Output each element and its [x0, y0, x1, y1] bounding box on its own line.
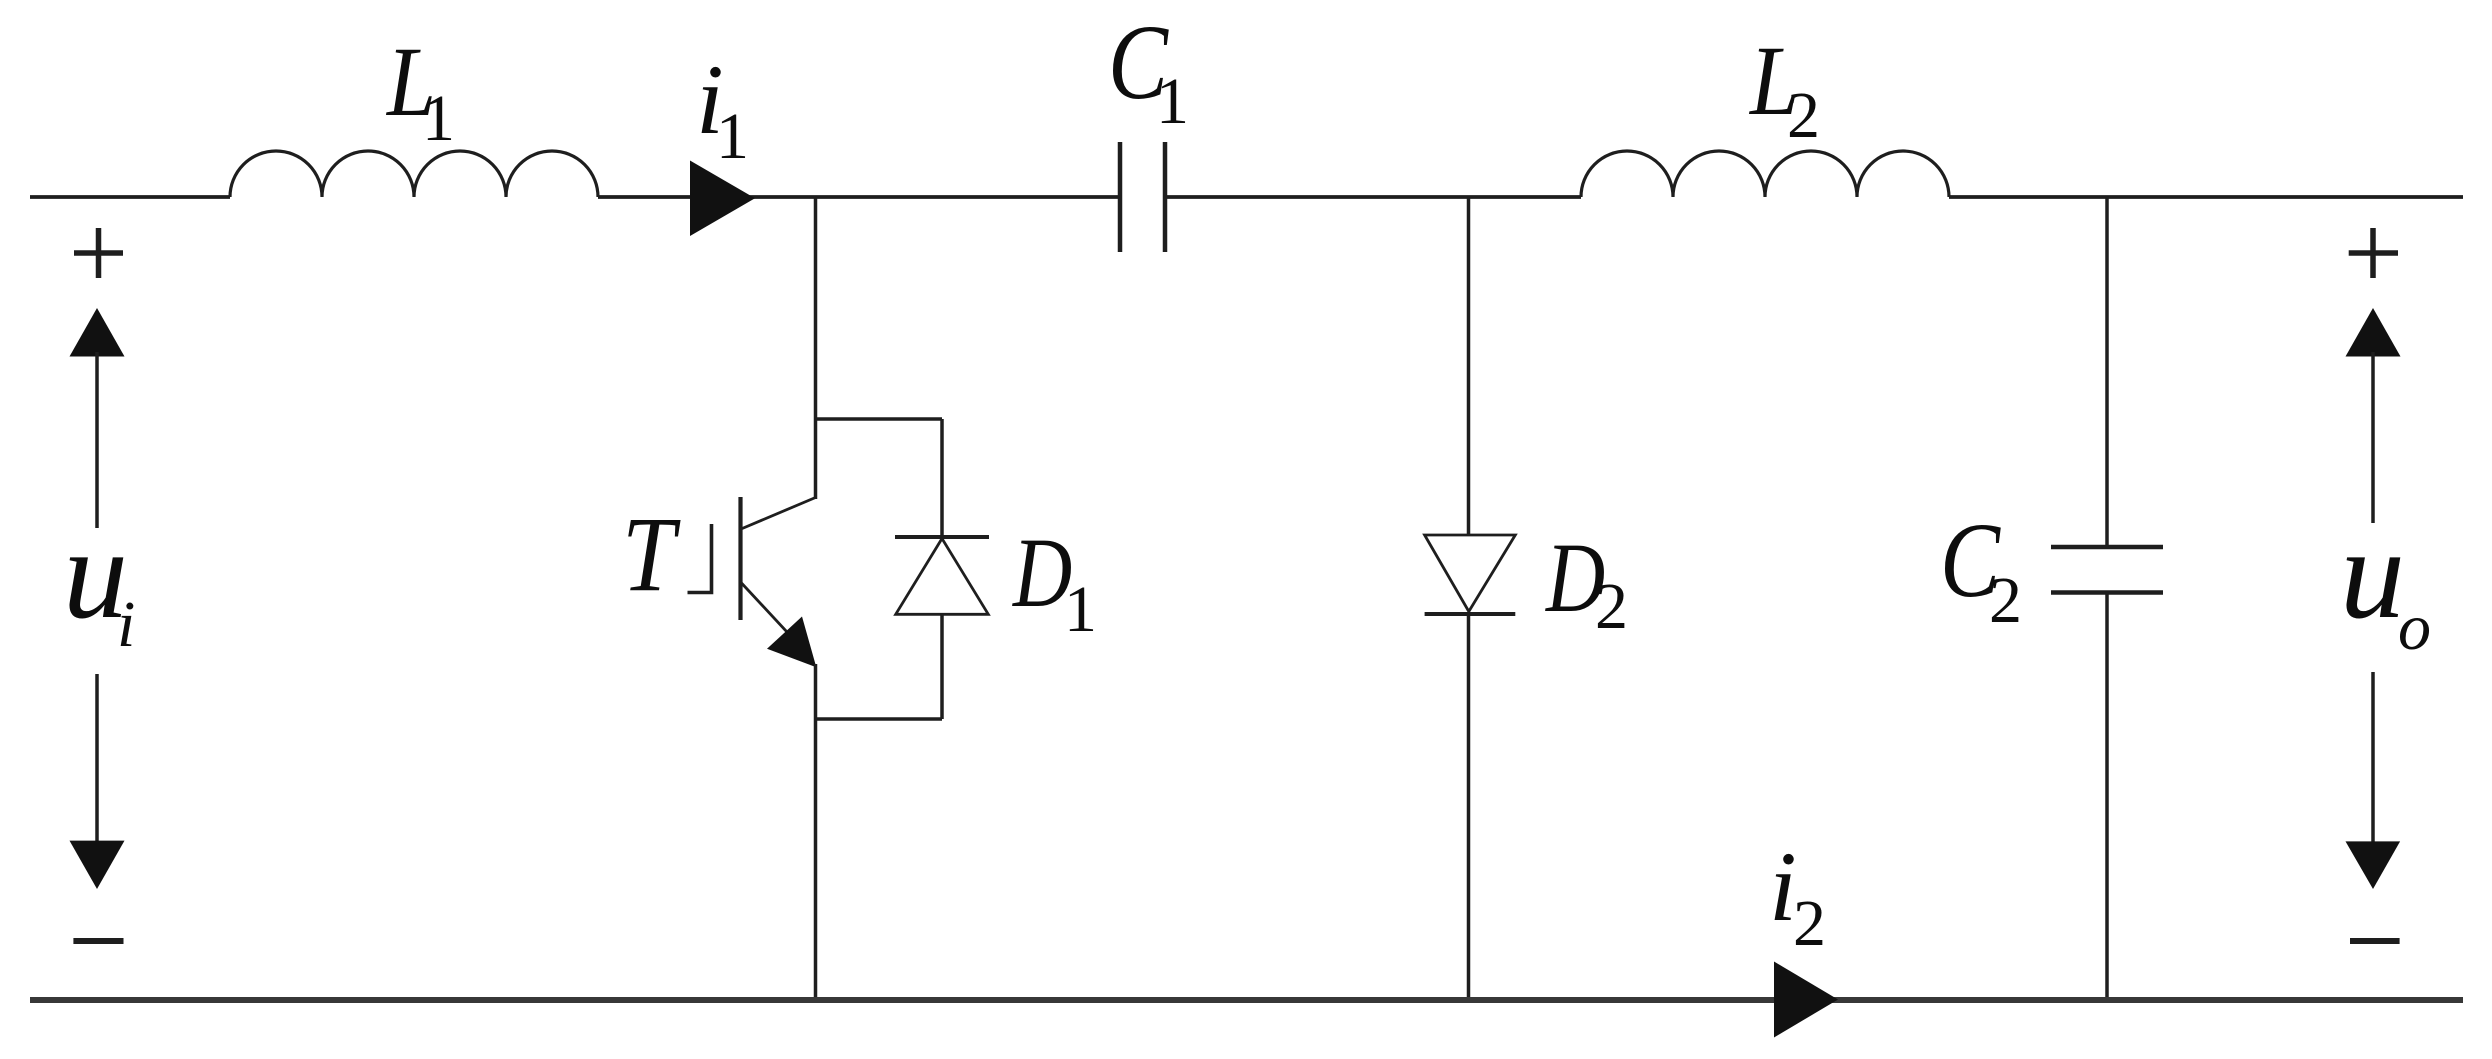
wire emitter to bottom rail [814, 664, 818, 1000]
svg-text:1: 1 [716, 100, 749, 173]
wire L2 to top-right end (through node C) [1949, 195, 2463, 199]
input up arrowhead [70, 308, 125, 357]
wire D1 cathode vertical [940, 419, 944, 537]
wire L1 to node A [598, 195, 1118, 199]
svg-text:2: 2 [1989, 564, 2022, 637]
transistor T emitter diagonal [741, 583, 800, 647]
svg-text:i: i [117, 588, 135, 661]
capacitor C2 top plate [2051, 545, 2163, 550]
wire top-left segment [30, 195, 230, 199]
svg-text:2: 2 [1787, 79, 1820, 152]
output minus sign [2350, 938, 2400, 944]
transistor T gate lead [688, 524, 712, 593]
capacitor C2 bottom plate [2051, 590, 2163, 595]
input arrow lower line [95, 674, 99, 845]
diode D2 triangle [1425, 535, 1516, 612]
current arrow i1 [690, 161, 755, 237]
input arrow upper line [95, 352, 99, 528]
wire D2 to bottom rail [1467, 614, 1471, 1000]
wire D1 anode vertical [940, 614, 944, 719]
wire node B to diode D2 [1467, 197, 1471, 535]
transistor T emitter arrowhead [767, 617, 816, 668]
svg-text:u: u [2340, 502, 2405, 646]
transistor T bar [738, 497, 742, 620]
inductor L2 [1581, 151, 1949, 197]
bottom rail wire [30, 997, 2463, 1003]
output arrow lower line [2371, 672, 2375, 845]
svg-text:T: T [622, 495, 681, 613]
svg-text:1: 1 [1064, 573, 1097, 646]
diode D1 triangle [896, 539, 989, 615]
output arrow upper line [2371, 352, 2375, 523]
transistor T (IGBT) collector diagonal [741, 498, 816, 530]
svg-text:2: 2 [1793, 887, 1826, 960]
capacitor C1 [1118, 142, 1123, 252]
diode D2 cathode bar [1425, 612, 1516, 616]
wire D1 bottom branch [816, 717, 943, 721]
wire node A vertical (top wire to transistor collector) [814, 197, 818, 499]
wire D1 top branch [816, 417, 943, 421]
wire C2 to bottom rail [2105, 593, 2109, 1001]
svg-text:1: 1 [1156, 65, 1189, 138]
input down arrowhead [70, 841, 125, 889]
wire C1 to L2 (through node B) [1167, 195, 1581, 199]
input plus sign [74, 228, 123, 278]
output down arrowhead [2346, 841, 2401, 889]
svg-text:o: o [2398, 591, 2431, 664]
output up arrowhead [2346, 308, 2401, 357]
input minus sign [73, 938, 123, 944]
current arrow i2 [1774, 962, 1838, 1038]
output plus sign [2349, 228, 2398, 278]
inductor L1 [230, 151, 598, 197]
svg-text:2: 2 [1595, 570, 1628, 643]
svg-text:1: 1 [422, 82, 455, 155]
wire node C to capacitor C2 [2105, 197, 2109, 547]
diode D1 cathode bar [895, 535, 989, 539]
